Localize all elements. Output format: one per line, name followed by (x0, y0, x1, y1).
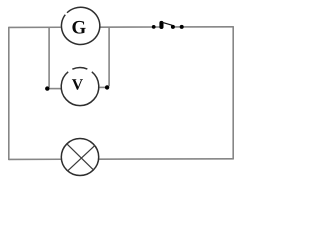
switch terminal dot 3 (171, 25, 175, 29)
switch terminal dot 1 (152, 25, 156, 29)
wire top-left segment (9, 26, 61, 28)
wire V-branch right stub (99, 86, 107, 88)
wire bottom-left segment (9, 158, 62, 160)
node: V left junction dot (45, 86, 49, 90)
switch lever (162, 22, 173, 25)
galvanometer G label (72, 21, 85, 34)
lamp X diagonal 1 (67, 144, 94, 170)
wire right vertical (232, 26, 234, 159)
lamp X diagonal 2 (67, 145, 94, 171)
wire V-branch left vertical (48, 27, 50, 87)
wire V-branch left stub (47, 88, 61, 90)
lamp circle (61, 139, 98, 176)
wire V-branch right vertical (108, 27, 110, 86)
wire top-middle segment (G to switch) (100, 26, 163, 28)
voltmeter V circle main arc (61, 72, 99, 106)
wire left vertical (8, 27, 10, 160)
switch terminal dot 4 (180, 25, 184, 29)
voltmeter V circle top dash (72, 68, 87, 70)
voltmeter V label (72, 79, 83, 90)
wire bottom-right segment (99, 158, 233, 160)
switch terminal dot 2 + pivot (merged post) (159, 21, 163, 29)
node: V right junction dot (105, 85, 109, 89)
wire top-right segment (switch to corner) (171, 26, 233, 28)
galvanometer G circle (61, 7, 99, 44)
